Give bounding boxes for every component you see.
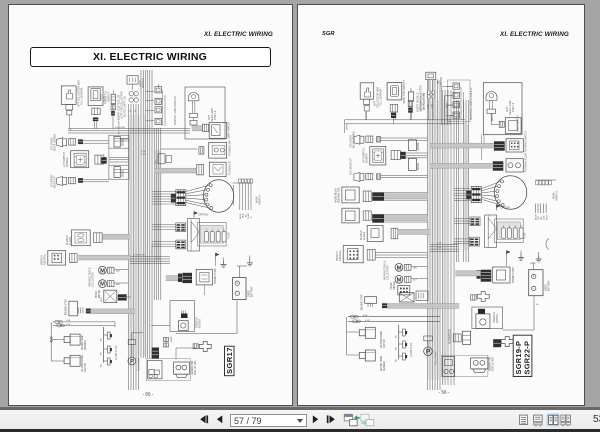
battery (right) [529, 270, 543, 296]
svg-text:4-5R: 4-5R [66, 324, 71, 326]
component: hydro start relay (left) [196, 269, 212, 285]
svg-text:HAND PTO SWITCH: HAND PTO SWITCH [403, 80, 406, 104]
svg-text:COLLECTOR: COLLECTOR [92, 272, 95, 287]
svg-text:METER: METER [394, 281, 396, 289]
wire: bus links below fuse (right) [453, 242, 455, 244]
connector: alarm buzzer [94, 233, 103, 243]
svg-text:M5: M5 [101, 337, 103, 341]
svg-text:B26: B26 [116, 271, 121, 273]
svg-text:−: − [236, 291, 238, 295]
svg-text:MOWER: MOWER [366, 153, 369, 163]
svg-text:4-5B: 4-5B [437, 243, 442, 245]
connector: timer barrel [197, 165, 204, 175]
svg-text:BLUE: BLUE [240, 213, 242, 219]
svg-text:GENERATOR: GENERATOR [489, 357, 492, 372]
glow plug comb (right) [398, 325, 400, 360]
component: water temp sender (left) [64, 337, 70, 343]
connector: fuse feed upper [176, 223, 186, 232]
component: starter motor (right) [472, 307, 503, 329]
svg-text:OIL PRESSURE: OIL PRESSURE [82, 355, 84, 372]
wire: lamp box drop (right) [491, 119, 493, 122]
component: neutral switch (left) [48, 251, 66, 266]
svg-text:MOTOR: MOTOR [199, 319, 202, 328]
flag: uwe link [507, 251, 511, 254]
svg-text:M: M [397, 265, 402, 271]
svg-text:QL-TO1 SHIFT LH): QL-TO1 SHIFT LH) [124, 96, 127, 117]
wire: circle outputs horizontals (left) [233, 185, 235, 206]
component: diode S05 cluster (left) [158, 154, 165, 164]
svg-text:4-5B: 4-5B [66, 320, 71, 322]
wire: sol down to bundle [381, 137, 428, 139]
outer box generator group (left) [146, 359, 190, 381]
zoom percentage (clipped) [593, 414, 600, 425]
model label SGR19-P SGR22-P [513, 335, 532, 376]
svg-text:VALVE UP: VALVE UP [54, 176, 57, 188]
component: starter motor assembly (left) [170, 301, 194, 332]
svg-text:P: P [130, 359, 134, 365]
svg-text:M: M [100, 282, 105, 288]
connector: below throttle switch [92, 108, 100, 115]
svg-text:TURNING RELAY: TURNING RELAY [525, 152, 528, 172]
component: engine stop solenoid (right) [365, 297, 377, 304]
wire: relay chain stubs (right) [446, 86, 453, 88]
wire: flasher feed [161, 148, 197, 150]
connector: safety relay [193, 344, 198, 349]
svg-text:TURNING SW: TURNING SW [229, 140, 232, 156]
headlamp bulb symbol [188, 93, 199, 101]
svg-text:SGR17: SGR17 [225, 347, 234, 374]
svg-text:B27: B27 [413, 280, 418, 282]
connector: headlamp base [190, 121, 197, 126]
ignition switch connector circle (right) [494, 176, 527, 210]
component: water temp sender (right) [359, 353, 365, 359]
component: warning switch (right) [506, 139, 523, 152]
prev-page button [217, 415, 222, 423]
harness: alarm band (right) [398, 229, 430, 234]
component: safety relay box top (right) [399, 293, 414, 302]
wire: sender feeders (left) [53, 321, 115, 323]
previous-view button [344, 414, 359, 426]
svg-text:BYLO: BYLO [547, 214, 549, 220]
harness: headlamp to lamp switch [192, 126, 203, 131]
outer box generator group [441, 355, 488, 376]
svg-text:HYDRO START: HYDRO START [512, 266, 515, 283]
component: starter relay box (left) [148, 361, 163, 379]
connector: neutral switch [69, 254, 77, 263]
component: alarm buzzer (right) [367, 226, 383, 242]
svg-text:4-5R: 4-5R [437, 247, 442, 249]
component: rear switch stalk (right) [426, 72, 436, 80]
svg-text:21 05: 21 05 [447, 102, 449, 108]
connector: inline bullets (right) [350, 315, 355, 318]
svg-text:BATTERY: BATTERY [548, 280, 551, 291]
component: diode S4 (left) [109, 135, 129, 148]
harness: relay1 band (right) [384, 194, 428, 199]
connector: hydro relay extra striped (left) [178, 274, 182, 283]
component: lamp switch (left) [209, 123, 227, 139]
component: fuel pump (left) [128, 340, 136, 345]
svg-text:SWITCH: SWITCH [142, 78, 145, 88]
connector: harness to starter relay (left) [152, 348, 159, 359]
connector: mower lift switch out [95, 155, 104, 164]
svg-text:ENGINE STOP: ENGINE STOP [362, 294, 364, 310]
harness: turn relay band (right) [430, 163, 492, 168]
connector: relay2 hatched [372, 214, 384, 223]
component: alarm buzzer (left) [72, 230, 91, 246]
connector: warning switch dark [494, 141, 505, 150]
fuse assembly (left) [188, 219, 200, 252]
connector: neutral switch (right) [367, 250, 375, 261]
component: hydro start relay (right) [493, 267, 510, 283]
svg-text:COLLECTOR: COLLECTOR [387, 265, 390, 280]
wire: ground link [237, 265, 247, 267]
svg-text:SWITCH: SWITCH [41, 255, 44, 265]
component: relay chain (right) [453, 83, 460, 89]
svg-text:4-5B: 4-5B [427, 104, 429, 109]
svg-text:M: M [397, 277, 402, 283]
harness: hydro relay band (right) [455, 271, 483, 276]
component: neutral switch (right) [343, 246, 363, 263]
component: mower lift switch (right) [370, 146, 386, 165]
harness: hydro relay band (left) [166, 276, 179, 281]
wire: lift switch to bus [109, 156, 129, 158]
svg-text:4-5B: 4-5B [363, 315, 368, 317]
bus: lower distribution (right) [430, 244, 458, 246]
svg-text:FUEL PUMP: FUEL PUMP [138, 357, 141, 371]
svg-text:39B55: 39B55 [546, 284, 548, 291]
connector: 4P dark (left) [118, 294, 127, 300]
svg-text:BLGN: BLGN [535, 214, 537, 220]
wire: neutral to bundle [375, 252, 427, 254]
component: short connector (right) [408, 92, 413, 101]
svg-text:P: P [426, 349, 431, 356]
svg-text:MONITOR LAMPS (S/W 4-5): MONITOR LAMPS (S/W 4-5) [470, 88, 473, 120]
component: flasher box (left) [209, 143, 227, 159]
harness: warning switch band (right) [430, 143, 494, 148]
component: rear switch stalk (left) [127, 76, 138, 84]
component: diode S6 (left) [109, 165, 129, 179]
svg-text:SWITCH: SWITCH [108, 92, 111, 102]
svg-text:BATTERY: BATTERY [251, 286, 254, 297]
svg-text:4-5R: 4-5R [365, 320, 370, 322]
svg-text:M5: M5 [396, 334, 398, 338]
motor M1 (right) [395, 263, 403, 271]
svg-text:M5: M5 [396, 358, 398, 362]
connector: glow relay [453, 334, 461, 342]
wire: nested brackets to monitor lamps [442, 86, 453, 88]
svg-text:LIFT SWITCH: LIFT SWITCH [363, 148, 366, 163]
svg-text:−: − [533, 287, 535, 291]
component: smart controller feed (left) [111, 94, 116, 103]
toolbar icons [195, 413, 380, 428]
rear lamp bulb symbol [486, 92, 497, 101]
ground symbol (right) [538, 255, 540, 259]
svg-text:M: M [100, 268, 105, 274]
svg-text:(SPEAKER NYLO: (SPEAKER NYLO [420, 93, 423, 111]
component: glow relay stack (right) [463, 331, 471, 344]
svg-text:BL: BL [245, 214, 247, 217]
ground symbol (left) [249, 259, 251, 263]
svg-text:- 56 -: - 56 - [439, 390, 450, 395]
connector: hydro relay dark [481, 270, 492, 282]
component: generator (left) [174, 362, 190, 374]
svg-text:YEL: YEL [538, 215, 540, 220]
battery (left) [233, 278, 246, 300]
svg-text:GL-TO1 SHIFT: GL-TO1 SHIFT [119, 119, 121, 134]
svg-text:SWITCH: SWITCH [336, 251, 339, 261]
right page sheet [297, 4, 585, 406]
component: diode boxes (right) [408, 140, 416, 151]
wire: solenoid down to bus [83, 140, 109, 142]
svg-text:4P05: 4P05 [101, 296, 103, 302]
two page mode icon (active) [547, 414, 559, 426]
harness: relay2 band (right) [384, 216, 428, 221]
right page running header [500, 31, 569, 38]
component: engine stop solenoid (left) [69, 301, 78, 316]
svg-text:4-5R: 4-5R [141, 154, 146, 156]
flag: uwe link (left) [216, 253, 220, 256]
svg-text:OPTION: OPTION [199, 214, 208, 217]
bus: top feeders (right) [345, 119, 465, 121]
left page sheet [8, 4, 293, 406]
svg-text:OIL PRESSURE: OIL PRESSURE [381, 331, 383, 348]
connector: hydro relay extra striped (right) [477, 270, 481, 279]
svg-text:SGR22-P: SGR22-P [522, 341, 531, 375]
svg-text:B27: B27 [116, 284, 121, 286]
mark: parenthesis (right page) [546, 239, 549, 250]
connector: lamp switch [499, 121, 504, 127]
svg-text:LAMP SWITCH: LAMP SWITCH [517, 115, 520, 132]
component: throttle switch box (left) [88, 87, 103, 106]
harness: engine stop band (left) [91, 309, 135, 314]
svg-text:SENDER: SENDER [85, 340, 87, 350]
svg-text:FUSE: FUSE [524, 232, 527, 239]
component: relay/diode chain (left) [155, 87, 162, 93]
two page continuous mode icon [561, 415, 571, 426]
wire: key outputs (right) [534, 204, 536, 214]
wire: rear lamp base to switch (right) [490, 114, 492, 125]
svg-text:TURNING SWITCH: TURNING SWITCH [525, 131, 528, 152]
single page mode icon [520, 415, 528, 424]
svg-text:GENERATOR: GENERATOR [191, 360, 194, 375]
wire: relay1 to bundle [384, 192, 427, 194]
first-page button [200, 415, 208, 423]
component: collector bag full sensor (left) [61, 86, 76, 105]
wire: faint extra verticals left page [129, 115, 131, 356]
connector: bullet pairs (right) [427, 90, 430, 94]
svg-text:2BL: 2BL [541, 215, 543, 220]
glow plug comb (left) [103, 327, 105, 363]
svg-text:DIODE: DIODE [123, 169, 125, 177]
bottom dark strip [0, 429, 600, 432]
svg-text:ALARM: ALARM [363, 232, 366, 240]
continuous scroll mode icon [534, 415, 543, 426]
motor M2 (left) [99, 280, 107, 288]
harness: neutral switch band (left) [78, 255, 130, 260]
svg-text:GLOW PLUG: GLOW PLUG [115, 345, 118, 360]
svg-text:2TW x 2: 2TW x 2 [512, 102, 515, 112]
connector: small striped block left [171, 194, 176, 203]
connector: mower lift out (right) [391, 150, 400, 159]
connector: relay aux pair (left) [164, 338, 169, 342]
ground symbol mid (left) [223, 261, 225, 265]
svg-text:4-5B: 4-5B [141, 151, 146, 153]
svg-text:M5: M5 [101, 363, 103, 367]
wire: starter loop [176, 333, 237, 335]
svg-text:FULL SENSOR: FULL SENSOR [81, 88, 84, 105]
wire: bus links below fuse (left) [151, 244, 153, 256]
wire: right page main bundle [427, 80, 429, 390]
component: opt headlamp box (left) [185, 87, 225, 139]
wire: diode links (left) [114, 137, 129, 139]
wire: solenoid up to bus [83, 179, 109, 181]
component: oil pressure switch (right) [359, 330, 365, 336]
connector: key switch harness (right) [471, 187, 481, 203]
left page running header [204, 31, 273, 38]
svg-text:FULL SENSOR: FULL SENSOR [380, 89, 383, 106]
wire: relay chain stubs (left) [146, 91, 154, 93]
svg-text:GL-TO1+2H 12F): GL-TO1+2H 12F) [423, 93, 425, 110]
svg-text:M5: M5 [101, 351, 103, 355]
component: holding solenoid relay 1 (right) [342, 187, 359, 203]
svg-text:PGMY: PGMY [248, 212, 250, 219]
connector: relay1 hatched [372, 192, 384, 201]
svg-text:METER: METER [99, 290, 101, 298]
wire: key switch outputs [239, 183, 241, 210]
bus: main horizontal feeders (left) [68, 128, 190, 130]
component: engine stop relay box (left) [104, 290, 117, 302]
svg-text:4-5R: 4-5R [432, 104, 434, 109]
svg-text:21-05: 21-05 [104, 96, 106, 102]
wire: hydro relay drop (left) [203, 285, 205, 295]
wire: fuse links [152, 224, 176, 226]
svg-text:OPT: OPT [438, 79, 440, 84]
component: starter relay box (right) [443, 357, 455, 377]
label: option flag [194, 212, 198, 215]
connector: small striped block left (right) [466, 190, 471, 199]
wire: relay2 to bundle [384, 213, 427, 215]
svg-text:SGR 107 45A: SGR 107 45A [492, 357, 495, 372]
svg-text:HOUR: HOUR [96, 291, 98, 298]
component: fuel pump (right) [424, 336, 433, 341]
svg-text:RED: RED [243, 213, 245, 218]
svg-text:WATER TEMP: WATER TEMP [81, 335, 84, 350]
svg-text:SOL VALVE UP: SOL VALVE UP [350, 158, 353, 175]
svg-text:HOLDING SOL: HOLDING SOL [339, 187, 341, 203]
svg-text:VALVE (DOWN): VALVE (DOWN) [54, 134, 57, 151]
svg-text:FUSE: FUSE [228, 232, 231, 239]
svg-text:39B55: 39B55 [249, 290, 251, 297]
component: safety relay cross (right) [477, 291, 489, 301]
connector: engine stop hatched (right) [382, 303, 387, 308]
wire: left page top distribution [128, 104, 130, 390]
wire: fuse links (right) [454, 218, 470, 220]
svg-text:LAMP SWITCH: LAMP SWITCH [228, 121, 231, 139]
harness: alarm buzzer band (left) [103, 234, 131, 239]
component: 4P connector (right) [398, 285, 410, 295]
svg-text:ENGINE STOP: ENGINE STOP [66, 299, 68, 315]
connector: inline bullets (left) [54, 320, 59, 323]
svg-text:B: B [251, 216, 253, 218]
svg-text:MOWER: MOWER [66, 157, 69, 167]
connector: main harness to key switch [176, 190, 186, 206]
left page title box [30, 47, 271, 67]
svg-text:FUEL PUMP: FUEL PUMP [435, 351, 438, 365]
page layout mode icons [515, 413, 600, 428]
wire: faint extra verticals right page [428, 100, 430, 380]
svg-text:M5: M5 [396, 346, 398, 350]
svg-text:ALARM: ALARM [69, 237, 72, 245]
component: generator (right) [471, 358, 488, 369]
wire: starter B+ loop [503, 329, 535, 331]
svg-text:NEUTRAL: NEUTRAL [44, 253, 47, 265]
svg-text:SWITCH: SWITCH [85, 363, 87, 372]
svg-text:DIODE: DIODE [418, 162, 420, 170]
svg-text:BUZZER: BUZZER [66, 235, 69, 245]
harness: mid fat band (left) [154, 168, 196, 173]
svg-text:B+: B+ [536, 304, 539, 306]
next-view button (disabled) [361, 414, 374, 426]
next-page button [313, 415, 318, 423]
model label SGR17 [225, 346, 235, 376]
wire: lamp switch drops (right) [481, 135, 483, 160]
component: opt rear lamp box (right) [483, 83, 522, 135]
ground symbol near fuse (right) [520, 254, 522, 258]
harness: engine stop band (right) [387, 304, 459, 309]
svg-text:GLOW PLUG: GLOW PLUG [410, 342, 413, 357]
connector: bullet pairs (left) [129, 92, 133, 96]
connector: hydro relay dark (left) [182, 273, 192, 283]
main switch table (right) [536, 180, 539, 185]
component: safety relay cross (left) [199, 341, 211, 351]
connector: relay2 out [363, 211, 371, 220]
svg-text:- 55 -: - 55 - [143, 392, 154, 397]
wire: sender drop (right) [346, 317, 348, 355]
svg-text:MOTOR: MOTOR [496, 314, 499, 323]
svg-text:BUZZER: BUZZER [360, 230, 363, 240]
svg-text:HOUR: HOUR [391, 282, 393, 289]
main switch pin table [239, 179, 242, 183]
fuse assembly (right) [485, 215, 497, 248]
svg-text:SWITCH: SWITCH [441, 77, 443, 86]
connector: relay1 out [363, 191, 371, 202]
component: timer box (left) [209, 162, 226, 176]
connector: hatched to harness [101, 157, 107, 163]
right page header SGR [322, 31, 335, 37]
wire: sender feeders (right) [348, 316, 440, 318]
wire: diode bracket verticals (left) [108, 148, 110, 165]
svg-text:TURNING RL: TURNING RL [229, 160, 232, 175]
component: mower lift switch (left) [71, 151, 89, 168]
svg-text:NEUTRAL: NEUTRAL [339, 249, 342, 261]
svg-text:OPTION: OPTION [501, 207, 510, 210]
component: holding solenoid relay 2 (right) [342, 208, 359, 223]
svg-text:VENTED LAMP (S/W 2-5): VENTED LAMP (S/W 2-5) [174, 96, 177, 125]
svg-text:DIODE: DIODE [123, 138, 125, 146]
page number combo box [230, 414, 307, 427]
svg-text:SWITCH: SWITCH [259, 195, 262, 205]
svg-text:GLOW RELAY: GLOW RELAY [449, 329, 452, 344]
wire: sender drop [50, 322, 52, 361]
connector: fuse lower (right) [469, 237, 479, 246]
svg-text:LIFT SWITCH: LIFT SWITCH [63, 152, 66, 167]
ignition switch connector circle (left) [203, 180, 233, 213]
svg-text:2TW x 2: 2TW x 2 [214, 110, 217, 120]
wire: harness into key connector [152, 191, 176, 193]
wire: headlamp drop [192, 118, 194, 121]
component: oil pressure switch (left) [64, 358, 70, 364]
connector: lamp switch feed [203, 124, 209, 132]
